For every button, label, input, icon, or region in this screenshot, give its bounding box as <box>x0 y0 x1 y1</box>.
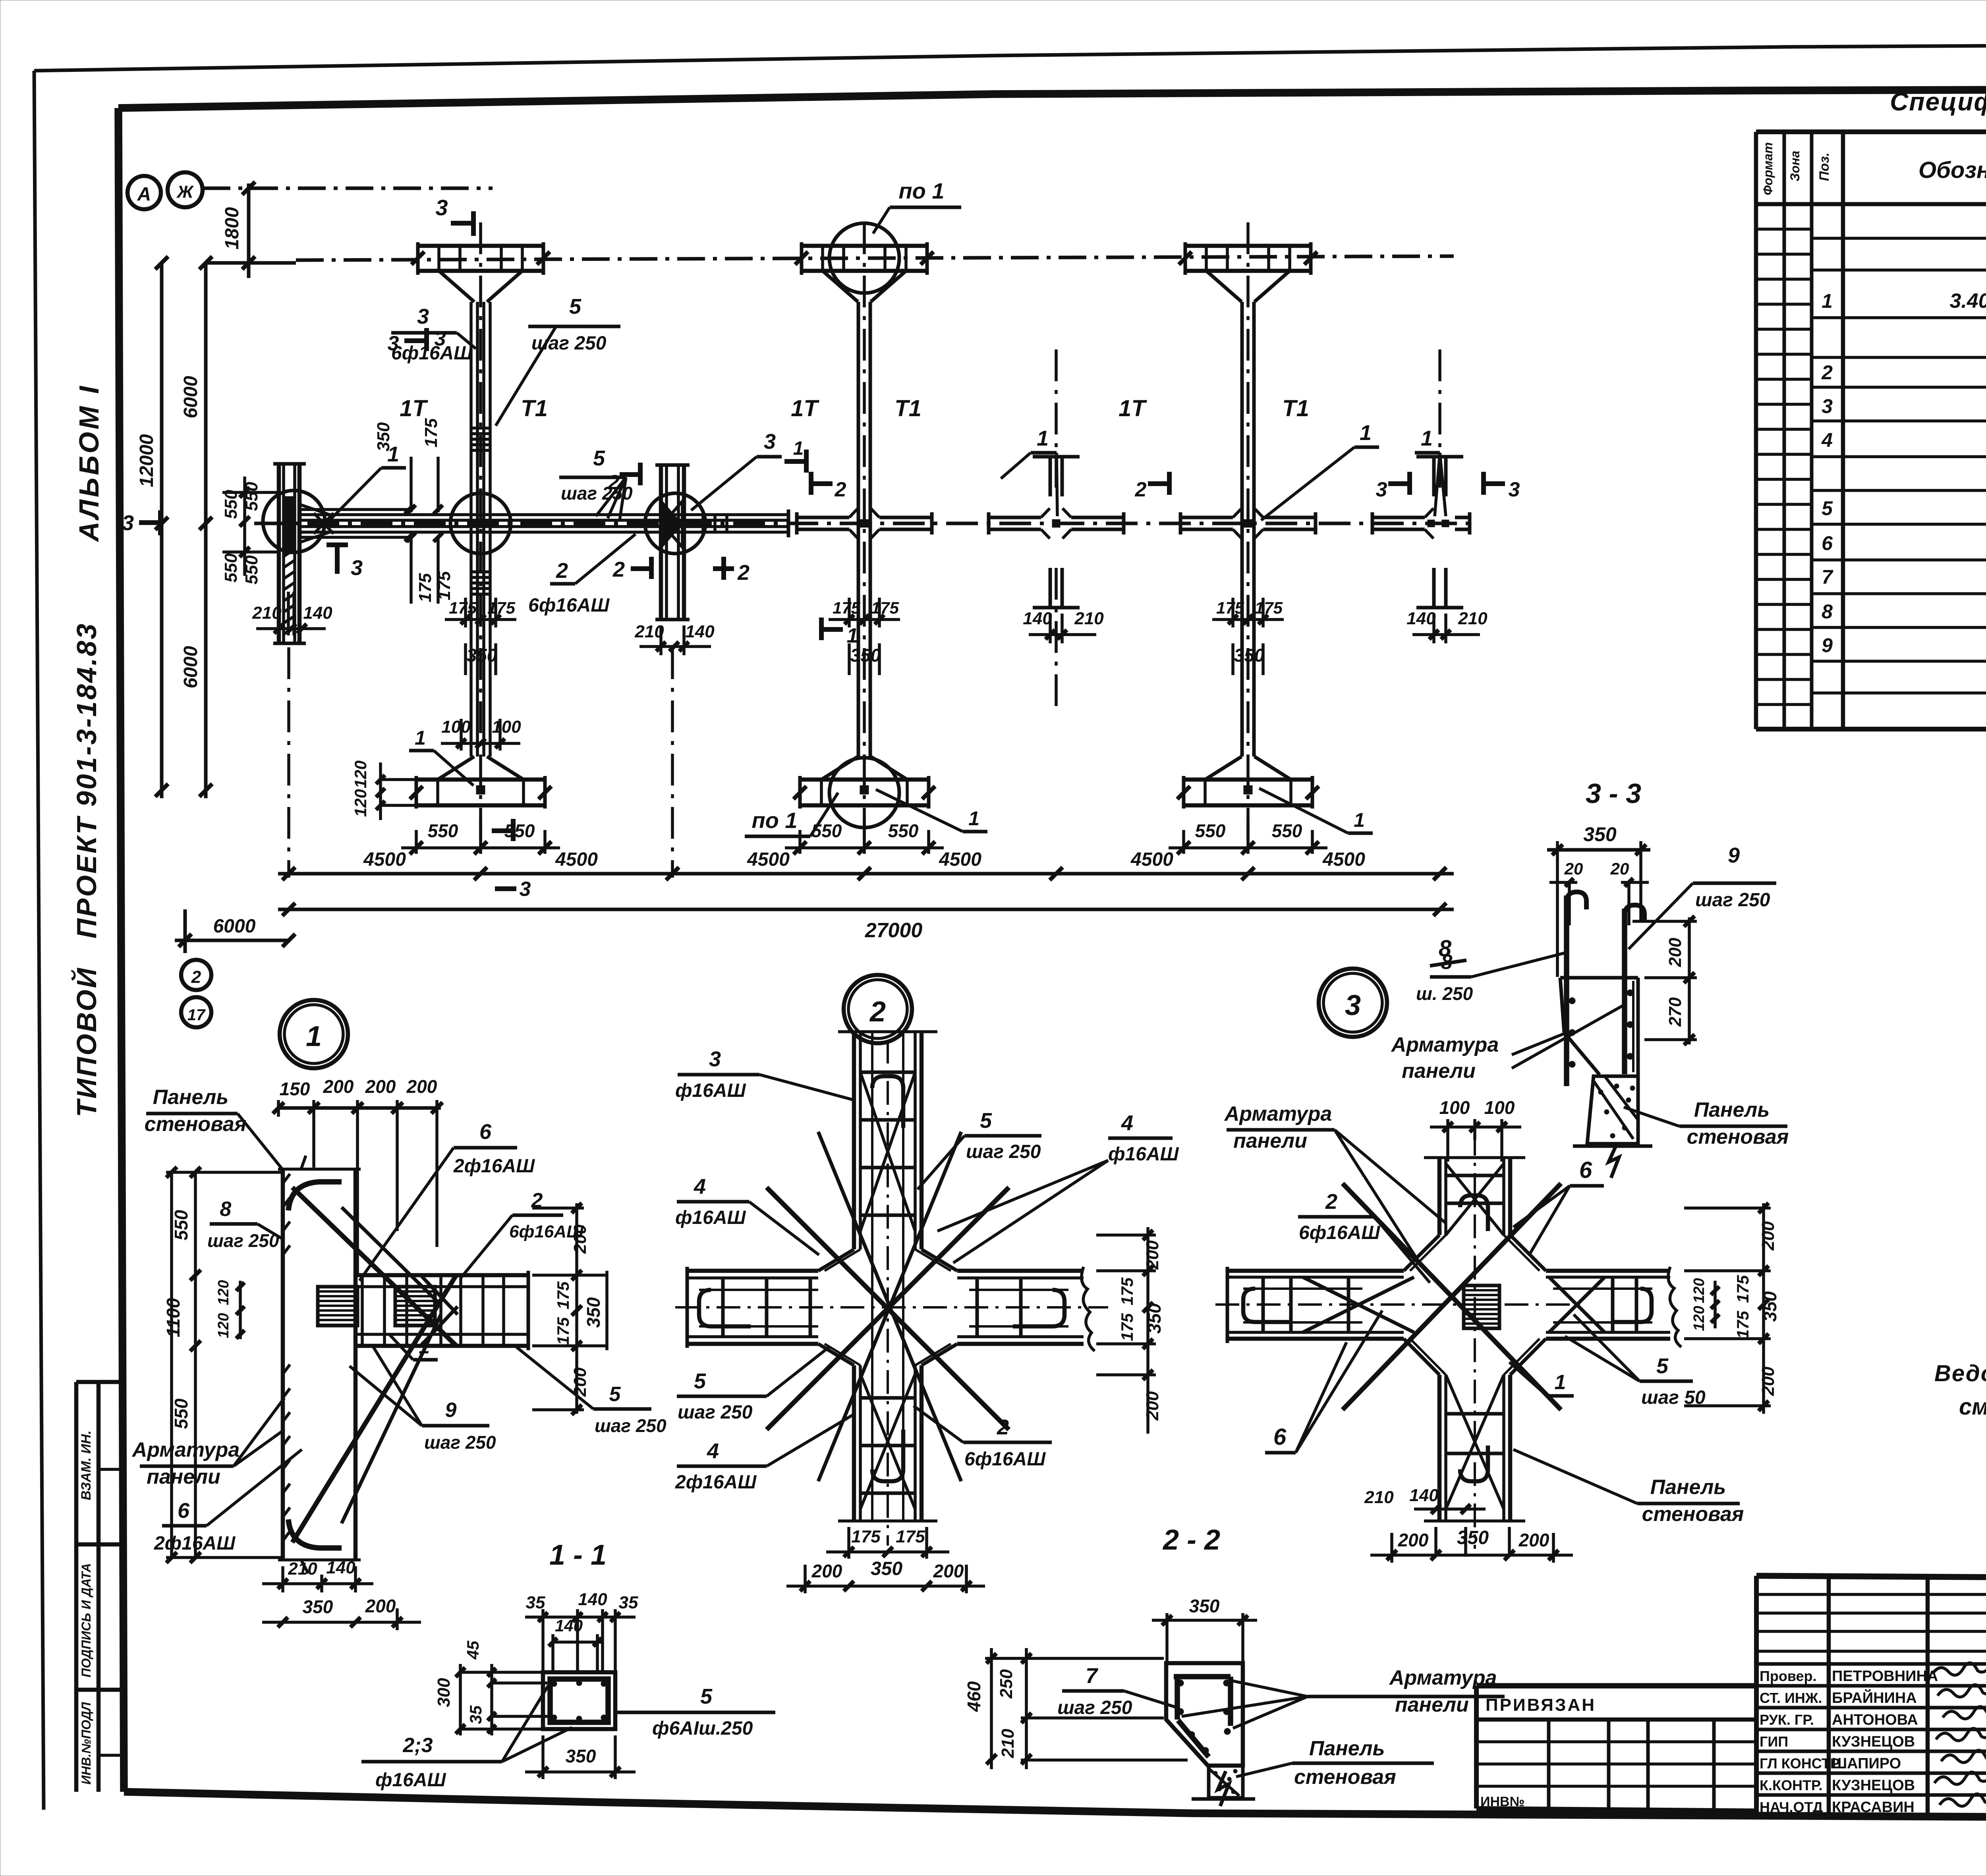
section 3-3 label 9 shag 250 <box>1629 843 1776 949</box>
detail 1 label 5 shag 250 <box>516 1347 667 1436</box>
svg-text:3: 3 <box>764 430 776 454</box>
svg-text:Формат: Формат <box>1761 142 1775 195</box>
handwritten 8 note <box>1430 936 1466 966</box>
label 2 6f16AIII below K3 <box>528 534 636 616</box>
title block outer borders <box>1756 1576 1986 1817</box>
label 3 leader to K3 <box>691 430 782 510</box>
detail 1 embedded plates hatched <box>318 1287 435 1326</box>
detail 1 left dims 550 1100 550 <box>163 1167 283 1563</box>
top axis dim line <box>207 256 1454 263</box>
plan column K7 stem stubs <box>1416 457 1463 608</box>
label 1 to K2 bottom flange <box>409 727 473 786</box>
label 1 to K6 bottom <box>1259 788 1373 833</box>
svg-text:2: 2 <box>191 967 201 987</box>
svg-text:1Т: 1Т <box>1119 396 1147 421</box>
section 3-3 label panel stenovaya <box>1624 1098 1789 1148</box>
svg-text:1: 1 <box>847 624 858 647</box>
svg-text:ф6АIш.250: ф6АIш.250 <box>652 1718 753 1739</box>
grid bubble A <box>128 176 161 209</box>
detail 1 top dims 150 200 200 200 <box>273 1076 442 1274</box>
svg-text:КУЗНЕЦОВ: КУЗНЕЦОВ <box>1832 1733 1915 1750</box>
detail 3 label armatura paneli <box>1224 1102 1446 1267</box>
plan column K7 center cross <box>1372 508 1470 538</box>
plan column K2 bottom flange <box>410 757 552 809</box>
dim line 12000 left <box>136 257 168 798</box>
detail 3 column walls <box>1424 1158 1525 1521</box>
svg-text:Панель: Панель <box>153 1086 229 1109</box>
svg-text:КУЗНЕЦОВ: КУЗНЕЦОВ <box>1832 1777 1915 1794</box>
svg-text:9: 9 <box>1728 843 1740 867</box>
detail 1 label 1 <box>389 1334 438 1360</box>
label po 1 top <box>873 178 961 234</box>
detail 2 bubble <box>844 975 912 1043</box>
plan column K2 circle at axis <box>450 493 511 554</box>
svg-text:20: 20 <box>1564 859 1583 878</box>
svg-text:1: 1 <box>1360 421 1372 445</box>
svg-text:350: 350 <box>871 1558 902 1579</box>
svg-text:210: 210 <box>998 1729 1018 1758</box>
plan column K2 top flange <box>411 242 550 302</box>
svg-text:6000: 6000 <box>213 916 256 937</box>
svg-text:ф16АШ: ф16АШ <box>1108 1144 1179 1165</box>
svg-text:120: 120 <box>215 1280 232 1305</box>
svg-text:6: 6 <box>1822 532 1833 554</box>
section mark 3T left of plan <box>122 510 160 535</box>
plan column K5 stem stubs <box>1033 457 1080 608</box>
svg-text:2: 2 <box>556 559 568 583</box>
svg-text:КРАСАВИН: КРАСАВИН <box>1832 1799 1915 1816</box>
K2 dims 120 120 rotated <box>351 760 415 820</box>
svg-text:210: 210 <box>1074 609 1104 628</box>
detail 1 label 2 6f16AIII right <box>461 1189 584 1278</box>
svg-text:200: 200 <box>365 1076 396 1097</box>
svg-text:120: 120 <box>351 760 370 788</box>
svg-text:175: 175 <box>1255 598 1283 617</box>
detail 1 beam section <box>355 1271 528 1350</box>
detail 3 embedded plate hatched <box>1464 1285 1499 1328</box>
square section outline <box>543 1672 615 1729</box>
K1 dims 550 550 vertical <box>221 477 278 585</box>
K5 dims 140 210 below <box>1023 609 1104 643</box>
svg-text:35: 35 <box>619 1593 638 1612</box>
svg-text:5: 5 <box>700 1685 713 1708</box>
svg-text:2: 2 <box>869 996 886 1028</box>
svg-text:270: 270 <box>1665 997 1685 1027</box>
spec table frame <box>1756 132 1986 729</box>
svg-text:100: 100 <box>1484 1097 1515 1118</box>
section marks 3 around K7 <box>1376 472 1520 501</box>
detail 3 right dims <box>1684 1203 1780 1414</box>
detail 1 label armatura paneli <box>131 1398 284 1488</box>
svg-text:140: 140 <box>578 1590 607 1609</box>
plan column K6 center cross <box>1180 508 1316 538</box>
svg-text:СТ. ИНЖ.: СТ. ИНЖ. <box>1760 1690 1822 1706</box>
svg-text:120: 120 <box>1691 1278 1708 1303</box>
svg-text:120: 120 <box>351 789 370 817</box>
svg-text:100: 100 <box>441 717 471 737</box>
svg-text:1Т: 1Т <box>791 396 819 421</box>
spec table left column row lines <box>1756 229 1843 730</box>
svg-text:ш. 250: ш. 250 <box>1416 983 1473 1004</box>
svg-text:3: 3 <box>1376 478 1387 501</box>
bottom-left dim 6000 <box>175 909 295 953</box>
svg-text:шаг 250: шаг 250 <box>595 1415 667 1436</box>
svg-text:ИНВ№: ИНВ№ <box>1480 1794 1524 1809</box>
pentagon top dim 350 <box>1152 1596 1257 1663</box>
svg-text:6: 6 <box>479 1120 492 1144</box>
K6 dims 175 175 350 <box>1212 598 1284 675</box>
svg-text:175: 175 <box>851 1527 881 1546</box>
svg-text:120: 120 <box>1691 1306 1708 1331</box>
grid bubble 17 bottom-left <box>181 997 211 1027</box>
section mark T3 near K1 <box>326 545 363 580</box>
detail 1 bubble <box>280 1000 348 1068</box>
plan column K2 stem rebar bundle <box>471 302 490 757</box>
svg-text:1: 1 <box>415 727 426 749</box>
svg-text:550: 550 <box>811 820 842 841</box>
svg-text:1800: 1800 <box>222 207 243 249</box>
detail 1 label 6 2f16AIII bottom <box>154 1449 302 1554</box>
svg-text:45: 45 <box>464 1641 482 1660</box>
svg-text:35: 35 <box>466 1705 485 1724</box>
pentagon concrete base <box>1192 1766 1255 1806</box>
svg-text:6000: 6000 <box>180 646 201 688</box>
detail 1 label 6 2f16AIII top <box>359 1120 535 1281</box>
svg-text:1: 1 <box>1822 290 1833 312</box>
plan column K1 wall panel <box>273 464 306 643</box>
section 3-3 panel outline <box>1560 978 1638 1145</box>
svg-text:350: 350 <box>1189 1596 1220 1616</box>
svg-text:5: 5 <box>1656 1354 1669 1378</box>
plan column K3 wall panel <box>655 465 690 620</box>
svg-text:175: 175 <box>896 1527 925 1546</box>
svg-text:панели: панели <box>1233 1129 1307 1152</box>
svg-text:20: 20 <box>1610 859 1629 878</box>
section 3-3 label armatura paneli <box>1389 1006 1623 1083</box>
svg-text:шаг 250: шаг 250 <box>207 1230 279 1251</box>
svg-text:Зона: Зона <box>1788 151 1802 181</box>
svg-text:1 - 1: 1 - 1 <box>549 1539 607 1571</box>
detail 2 right dims 200 175 175 350 200 <box>1096 1227 1165 1434</box>
svg-text:175: 175 <box>833 598 861 617</box>
svg-text:шаг 250: шаг 250 <box>1057 1697 1132 1718</box>
svg-text:175: 175 <box>415 573 435 602</box>
svg-text:ф16АШ: ф16АШ <box>675 1080 746 1101</box>
svg-text:3: 3 <box>1822 395 1833 417</box>
svg-text:3 - 3: 3 - 3 <box>1586 778 1641 809</box>
svg-text:Спецификация монолитных учас: Спецификация монолитных участков <box>1890 87 1986 116</box>
grid bubble 2 bottom-left <box>181 960 211 990</box>
section mark 2T left of K3 <box>612 557 651 581</box>
svg-text:350: 350 <box>1144 1303 1165 1334</box>
svg-text:350: 350 <box>1583 823 1617 845</box>
detail 3 label 1 <box>1509 1362 1574 1396</box>
sheet paper left edge <box>34 71 44 1810</box>
detail 3 label 6 bottom left <box>1265 1310 1382 1453</box>
svg-text:Поз.: Поз. <box>1817 152 1832 181</box>
svg-text:350: 350 <box>566 1746 596 1766</box>
detail 3 beam rebar hooks <box>1243 1277 1652 1332</box>
svg-text:460: 460 <box>964 1681 984 1712</box>
svg-text:Ж: Ж <box>176 182 194 202</box>
detail 3 bubble <box>1319 969 1387 1037</box>
section mark 3 on K2 stem <box>388 327 446 355</box>
svg-text:4500: 4500 <box>555 849 598 870</box>
plan column K4 top flange with circle po 1 <box>795 223 934 302</box>
svg-text:250: 250 <box>997 1669 1016 1699</box>
svg-text:5: 5 <box>569 295 582 318</box>
detail 1 bottom dims 210 140 350 200 <box>262 1558 421 1630</box>
square section label 2 3 f16AIII <box>361 1686 572 1791</box>
section 3-3 dims 20 20 <box>1549 859 1649 925</box>
detail 2 diagonal bars X <box>767 1072 1009 1509</box>
svg-text:6: 6 <box>1273 1424 1287 1450</box>
svg-text:3: 3 <box>122 511 134 535</box>
svg-text:стеновая: стеновая <box>145 1113 247 1136</box>
svg-text:350: 350 <box>583 1297 604 1328</box>
svg-text:Провер.: Провер. <box>1760 1668 1817 1684</box>
svg-text:550: 550 <box>1272 820 1302 841</box>
svg-text:200: 200 <box>1758 1221 1778 1251</box>
label 3 6f16AIII at K2 <box>391 305 476 364</box>
svg-text:200: 200 <box>811 1561 842 1581</box>
svg-text:2;3: 2;3 <box>402 1734 433 1757</box>
column type labels 1T T1 <box>400 396 1309 421</box>
svg-text:140: 140 <box>1023 609 1052 628</box>
title block <box>1756 1576 1986 1819</box>
svg-text:ШАПИРО: ШАПИРО <box>1832 1755 1901 1772</box>
K2 dims 175 175 350 <box>445 598 516 675</box>
svg-text:140: 140 <box>303 603 332 623</box>
K7 dims 140 210 below <box>1406 609 1488 643</box>
svg-text:140: 140 <box>1409 1486 1439 1505</box>
label 1 to K7 <box>1415 427 1446 516</box>
pentagon label panel stenovaya <box>1236 1737 1434 1789</box>
label 5 shag 250 top <box>496 295 620 426</box>
svg-text:2: 2 <box>1135 478 1147 501</box>
pentagon label 7 shag 250 <box>1057 1664 1177 1718</box>
detail 2 label 4 2f16AIII left bottom <box>675 1414 855 1493</box>
grid bubble Ж <box>168 172 203 207</box>
detail 2 beam rebar and stirrups <box>699 1278 1068 1337</box>
svg-text:стеновая: стеновая <box>1642 1503 1744 1526</box>
svg-text:7: 7 <box>1086 1664 1099 1688</box>
section marks 1 2 left of K4 <box>784 438 846 501</box>
detail 1 wall panel verticals <box>278 1156 361 1573</box>
section title 1-1 <box>549 1539 607 1571</box>
svg-text:2ф16АШ: 2ф16АШ <box>154 1533 236 1554</box>
svg-text:200: 200 <box>933 1561 964 1581</box>
svg-text:А: А <box>137 184 151 205</box>
svg-text:17: 17 <box>187 1006 206 1024</box>
svg-text:4500: 4500 <box>747 849 790 870</box>
svg-text:1Т: 1Т <box>400 396 428 421</box>
svg-text:Арматура: Арматура <box>1391 1033 1499 1056</box>
svg-text:1: 1 <box>387 442 399 466</box>
svg-text:350: 350 <box>850 645 881 666</box>
label 1 to K5 <box>1001 427 1057 516</box>
svg-text:ТИПОВОЙ ПРОЕКТ 901-3-184.83: ТИПОВОЙ ПРОЕКТ 901-3-184.83 <box>70 622 102 1117</box>
svg-text:шаг 250: шаг 250 <box>424 1432 496 1453</box>
svg-text:6ф16АШ: 6ф16АШ <box>391 343 473 364</box>
bottom dim row 4500 x6 <box>278 849 1454 880</box>
svg-text:2: 2 <box>737 561 750 585</box>
detail 3 diagonal bars X <box>1303 1164 1605 1509</box>
dim line 6000 6000 left <box>180 257 212 798</box>
svg-text:200: 200 <box>1665 938 1685 967</box>
plan column K1 stem rebar bundle <box>299 504 612 542</box>
svg-text:Арматура: Арматура <box>1224 1102 1332 1125</box>
section 3-3 rebar bars with hooks <box>1567 892 1644 1086</box>
svg-text:2: 2 <box>1821 361 1833 384</box>
svg-text:2: 2 <box>1325 1190 1337 1214</box>
svg-text:350: 350 <box>1760 1291 1780 1322</box>
svg-text:1: 1 <box>793 438 804 459</box>
square section bottom dim 350 <box>525 1735 636 1779</box>
svg-text:550: 550 <box>428 820 458 841</box>
svg-text:100: 100 <box>492 717 521 737</box>
svg-text:6ф16АШ: 6ф16АШ <box>1299 1222 1380 1243</box>
svg-text:5: 5 <box>694 1369 706 1393</box>
svg-text:шаг 250: шаг 250 <box>966 1141 1041 1162</box>
svg-text:2ф16АШ: 2ф16АШ <box>675 1472 757 1493</box>
section mark 3 bottom of K2 <box>492 819 531 901</box>
svg-text:Панель: Панель <box>1650 1476 1726 1499</box>
svg-text:4500: 4500 <box>363 849 406 870</box>
detail 1 label 9 shag 250 <box>350 1347 496 1453</box>
svg-text:ПОДПИСЬ И ДАТА: ПОДПИСЬ И ДАТА <box>79 1563 93 1677</box>
left margin rotated title ТИПОВОЙ ПРОЕКТ 901-3-184.83 <box>70 622 102 1117</box>
svg-text:6ф16АШ: 6ф16АШ <box>509 1222 584 1241</box>
svg-text:8: 8 <box>1441 951 1453 974</box>
svg-text:2: 2 <box>835 478 846 501</box>
plan column K6 stem <box>1242 302 1254 757</box>
svg-text:175: 175 <box>1216 598 1244 617</box>
detail 1 bent rebar diagonals <box>288 1182 458 1548</box>
svg-text:175: 175 <box>554 1317 572 1345</box>
svg-text:350: 350 <box>467 645 497 666</box>
plan column K6 bottom flange <box>1177 757 1319 809</box>
svg-text:550: 550 <box>221 490 241 519</box>
svg-text:2ф16АШ: 2ф16АШ <box>453 1156 535 1177</box>
label 1 to K4 bottom <box>876 789 987 832</box>
svg-text:Т1: Т1 <box>1282 396 1309 421</box>
svg-text:1: 1 <box>306 1021 322 1052</box>
svg-text:550: 550 <box>171 1210 191 1240</box>
svg-text:100: 100 <box>1439 1097 1470 1118</box>
svg-text:1: 1 <box>968 807 979 830</box>
svg-text:стеновая: стеновая <box>1687 1125 1789 1148</box>
title block signature texts <box>1760 1663 1986 1816</box>
svg-text:5: 5 <box>593 446 605 470</box>
detail 3 label 6 right <box>1513 1157 1604 1255</box>
detail 2 label 2 6f16AIII bottom <box>914 1406 1052 1470</box>
svg-text:27000: 27000 <box>865 919 923 942</box>
label po 1 bottom <box>745 793 838 836</box>
plan K3 beam bundle continuation <box>612 510 788 537</box>
detail 2 label 4 f16AIII left <box>675 1175 819 1255</box>
detail 2 axes <box>675 1040 1108 1546</box>
svg-text:см. лист 25: см. лист 25 <box>1959 1394 1986 1420</box>
svg-text:2: 2 <box>997 1415 1009 1439</box>
square section left dims 45 300 35 <box>434 1641 548 1735</box>
svg-text:200: 200 <box>1143 1240 1162 1270</box>
detail 2 column walls <box>838 1032 937 1521</box>
section mark 2 right of K4 <box>1135 472 1169 501</box>
dim 1800 vertical <box>222 182 255 278</box>
detail 3 axes <box>1215 1132 1585 1549</box>
detail 1 label 8 shag 250 <box>207 1198 283 1251</box>
svg-text:Т1: Т1 <box>894 396 922 421</box>
svg-text:175: 175 <box>1118 1277 1136 1305</box>
svg-text:АЛЬБОМ I: АЛЬБОМ I <box>73 384 104 542</box>
svg-text:6: 6 <box>178 1499 190 1523</box>
svg-text:210: 210 <box>1458 609 1488 628</box>
svg-text:3: 3 <box>435 195 448 220</box>
svg-text:ф16АШ: ф16АШ <box>375 1770 446 1791</box>
svg-text:3: 3 <box>709 1047 721 1071</box>
detail 2 label 5 shag 250 left <box>677 1346 830 1423</box>
svg-text:панели: панели <box>147 1465 220 1488</box>
svg-text:8: 8 <box>220 1198 232 1221</box>
svg-text:210: 210 <box>1364 1488 1394 1507</box>
svg-text:175: 175 <box>449 598 477 617</box>
K3 dims 210 140 below <box>634 622 715 655</box>
sheet paper top edge <box>34 42 1986 71</box>
svg-text:по 1: по 1 <box>898 178 944 203</box>
left margin rotated title АЛЬБОМ I <box>73 384 104 542</box>
svg-text:3.400- 6/76: 3.400- 6/76 <box>1949 290 1986 313</box>
pentagon label armatura paneli <box>1182 1666 1505 1728</box>
detail 3 column rebar hooks <box>1446 1175 1504 1481</box>
svg-text:210: 210 <box>288 1559 317 1579</box>
svg-text:Т1: Т1 <box>521 396 548 421</box>
svg-text:7: 7 <box>1822 566 1833 588</box>
svg-text:Панель: Панель <box>1309 1737 1385 1760</box>
svg-text:шаг 50: шаг 50 <box>1641 1387 1706 1408</box>
svg-text:120: 120 <box>215 1313 232 1338</box>
plan column K4 bottom flange with circle po 1 <box>794 757 935 828</box>
svg-text:5: 5 <box>609 1383 621 1406</box>
svg-text:6000: 6000 <box>180 376 201 418</box>
svg-text:2: 2 <box>531 1189 543 1212</box>
section mark 1 below left of K4 <box>821 618 858 647</box>
svg-text:300: 300 <box>434 1678 454 1707</box>
svg-text:200: 200 <box>1758 1366 1778 1396</box>
section 3-3 title <box>1586 778 1641 809</box>
note vedomost raskhoda stali <box>1934 1361 1986 1420</box>
svg-text:3: 3 <box>351 556 363 580</box>
svg-text:3: 3 <box>1509 478 1520 501</box>
svg-text:175: 175 <box>554 1281 572 1309</box>
label 1 leader to K1 <box>326 442 406 524</box>
svg-text:Обозначение: Обозначение <box>1918 157 1986 183</box>
svg-text:175: 175 <box>1118 1313 1136 1341</box>
svg-text:175: 175 <box>487 598 516 617</box>
plan column K6 top flange <box>1179 242 1318 302</box>
svg-text:200: 200 <box>1398 1530 1429 1550</box>
svg-text:140: 140 <box>685 622 715 641</box>
svg-text:4500: 4500 <box>1322 849 1365 870</box>
svg-text:2 - 2: 2 - 2 <box>1162 1524 1220 1556</box>
K2 dims 100 100 <box>441 717 521 751</box>
svg-text:210: 210 <box>634 622 664 641</box>
svg-text:4: 4 <box>694 1175 706 1199</box>
svg-text:3: 3 <box>520 878 531 901</box>
svg-text:4500: 4500 <box>1130 849 1173 870</box>
svg-text:550: 550 <box>888 820 919 841</box>
svg-text:1: 1 <box>419 1336 430 1358</box>
